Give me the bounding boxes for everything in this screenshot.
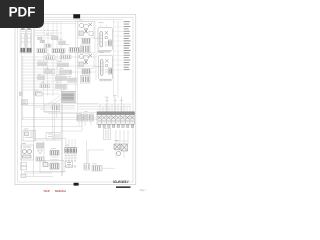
comb strip under pump U1	[97, 51, 111, 53]
pump unit box T2	[21, 145, 34, 160]
left stacked boxes	[21, 163, 27, 170]
valve V7	[58, 63, 69, 67]
valve V17	[36, 157, 44, 161]
wire mid vertical lines	[44, 18, 119, 112]
valve V15	[34, 92, 42, 96]
valve V12	[68, 79, 77, 83]
junction box mid A	[44, 104, 60, 112]
solenoid row C	[69, 48, 80, 53]
title block bottom	[74, 183, 79, 186]
valve V14	[56, 85, 68, 89]
valve pair under swing motor M2	[82, 69, 90, 74]
main pump U1	[94, 25, 112, 50]
control valve CV sections	[97, 115, 135, 125]
legend leader wires	[113, 22, 123, 70]
node box left-mid	[22, 100, 28, 105]
valve V8	[45, 70, 55, 74]
solenoid row A	[37, 49, 47, 53]
control valve solenoid caps	[98, 125, 133, 128]
parts list legend	[124, 21, 131, 70]
valve V11	[56, 77, 67, 81]
svg-text:SOLAR-MGE-V: SOLAR-MGE-V	[113, 180, 129, 184]
swing valve block 2	[81, 76, 91, 84]
small valve top-left b	[40, 40, 45, 43]
oil cooler box	[104, 129, 111, 140]
pump P2 tower	[26, 29, 31, 54]
valve V3	[45, 44, 51, 47]
pilot valve cluster	[62, 92, 76, 103]
pump P1 tower	[20, 29, 25, 54]
travel motor cluster right	[114, 130, 128, 159]
wire mid horizontals	[22, 57, 96, 94]
PDF badge	[0, 0, 44, 28]
tank box T1	[23, 131, 36, 142]
valve V2	[59, 41, 66, 45]
filter F1	[37, 143, 44, 154]
svg-text:PHILIP: PHILIP	[44, 189, 50, 193]
small valve top-left a	[38, 37, 43, 40]
valve V6	[38, 62, 47, 66]
swing valve block	[81, 45, 91, 53]
wire left vertical bus	[22, 18, 35, 176]
svg-text:PDF: PDF	[9, 4, 36, 19]
valve V13	[40, 84, 50, 88]
valve V5	[60, 55, 71, 59]
main pump U2	[95, 55, 113, 79]
bottom small cluster B	[92, 166, 115, 172]
control valve feed wires	[78, 104, 130, 113]
author red text	[44, 189, 67, 193]
swing motor M2 (second group)	[78, 53, 94, 69]
solenoid row B	[52, 49, 65, 53]
wire verticals to bottom	[53, 102, 63, 176]
bottom left box	[40, 161, 64, 173]
control valve CV top band	[97, 112, 135, 115]
valve pair under swing motor	[82, 39, 90, 44]
svg-text:Page 1: Page 1	[140, 189, 147, 192]
stamp text SOLAR	[113, 180, 129, 184]
svg-text:NGECHA: NGECHA	[55, 189, 66, 193]
valve V16	[36, 93, 42, 96]
DCV cluster	[50, 151, 59, 163]
valve V9	[60, 70, 72, 74]
relief valve group left of CV	[77, 114, 94, 126]
cylinder bank	[64, 139, 77, 167]
valve V4	[45, 56, 55, 60]
bottom small cluster A	[84, 164, 90, 171]
rounded box right of bottom-left box	[66, 161, 73, 168]
bottom-right heavy dash	[116, 186, 131, 188]
tiny label specks	[22, 20, 119, 165]
swing motor M1	[78, 22, 94, 39]
title block top	[73, 14, 80, 18]
bottom wires	[22, 139, 104, 177]
wire fan from pilot cluster	[22, 95, 98, 109]
page number gray text	[140, 189, 147, 192]
wire top horizontal bus	[35, 20, 123, 24]
port stand symbols above control valve	[106, 96, 123, 112]
long mid horizontals	[22, 112, 97, 131]
valve V1	[52, 36, 59, 40]
bottom left small marks	[21, 174, 26, 177]
junction box mid B	[46, 133, 60, 141]
left edge tick	[19, 92, 22, 95]
wire top-left horizontals	[35, 31, 62, 42]
comb strip under pump U2	[99, 79, 112, 81]
valve V10	[38, 76, 45, 80]
